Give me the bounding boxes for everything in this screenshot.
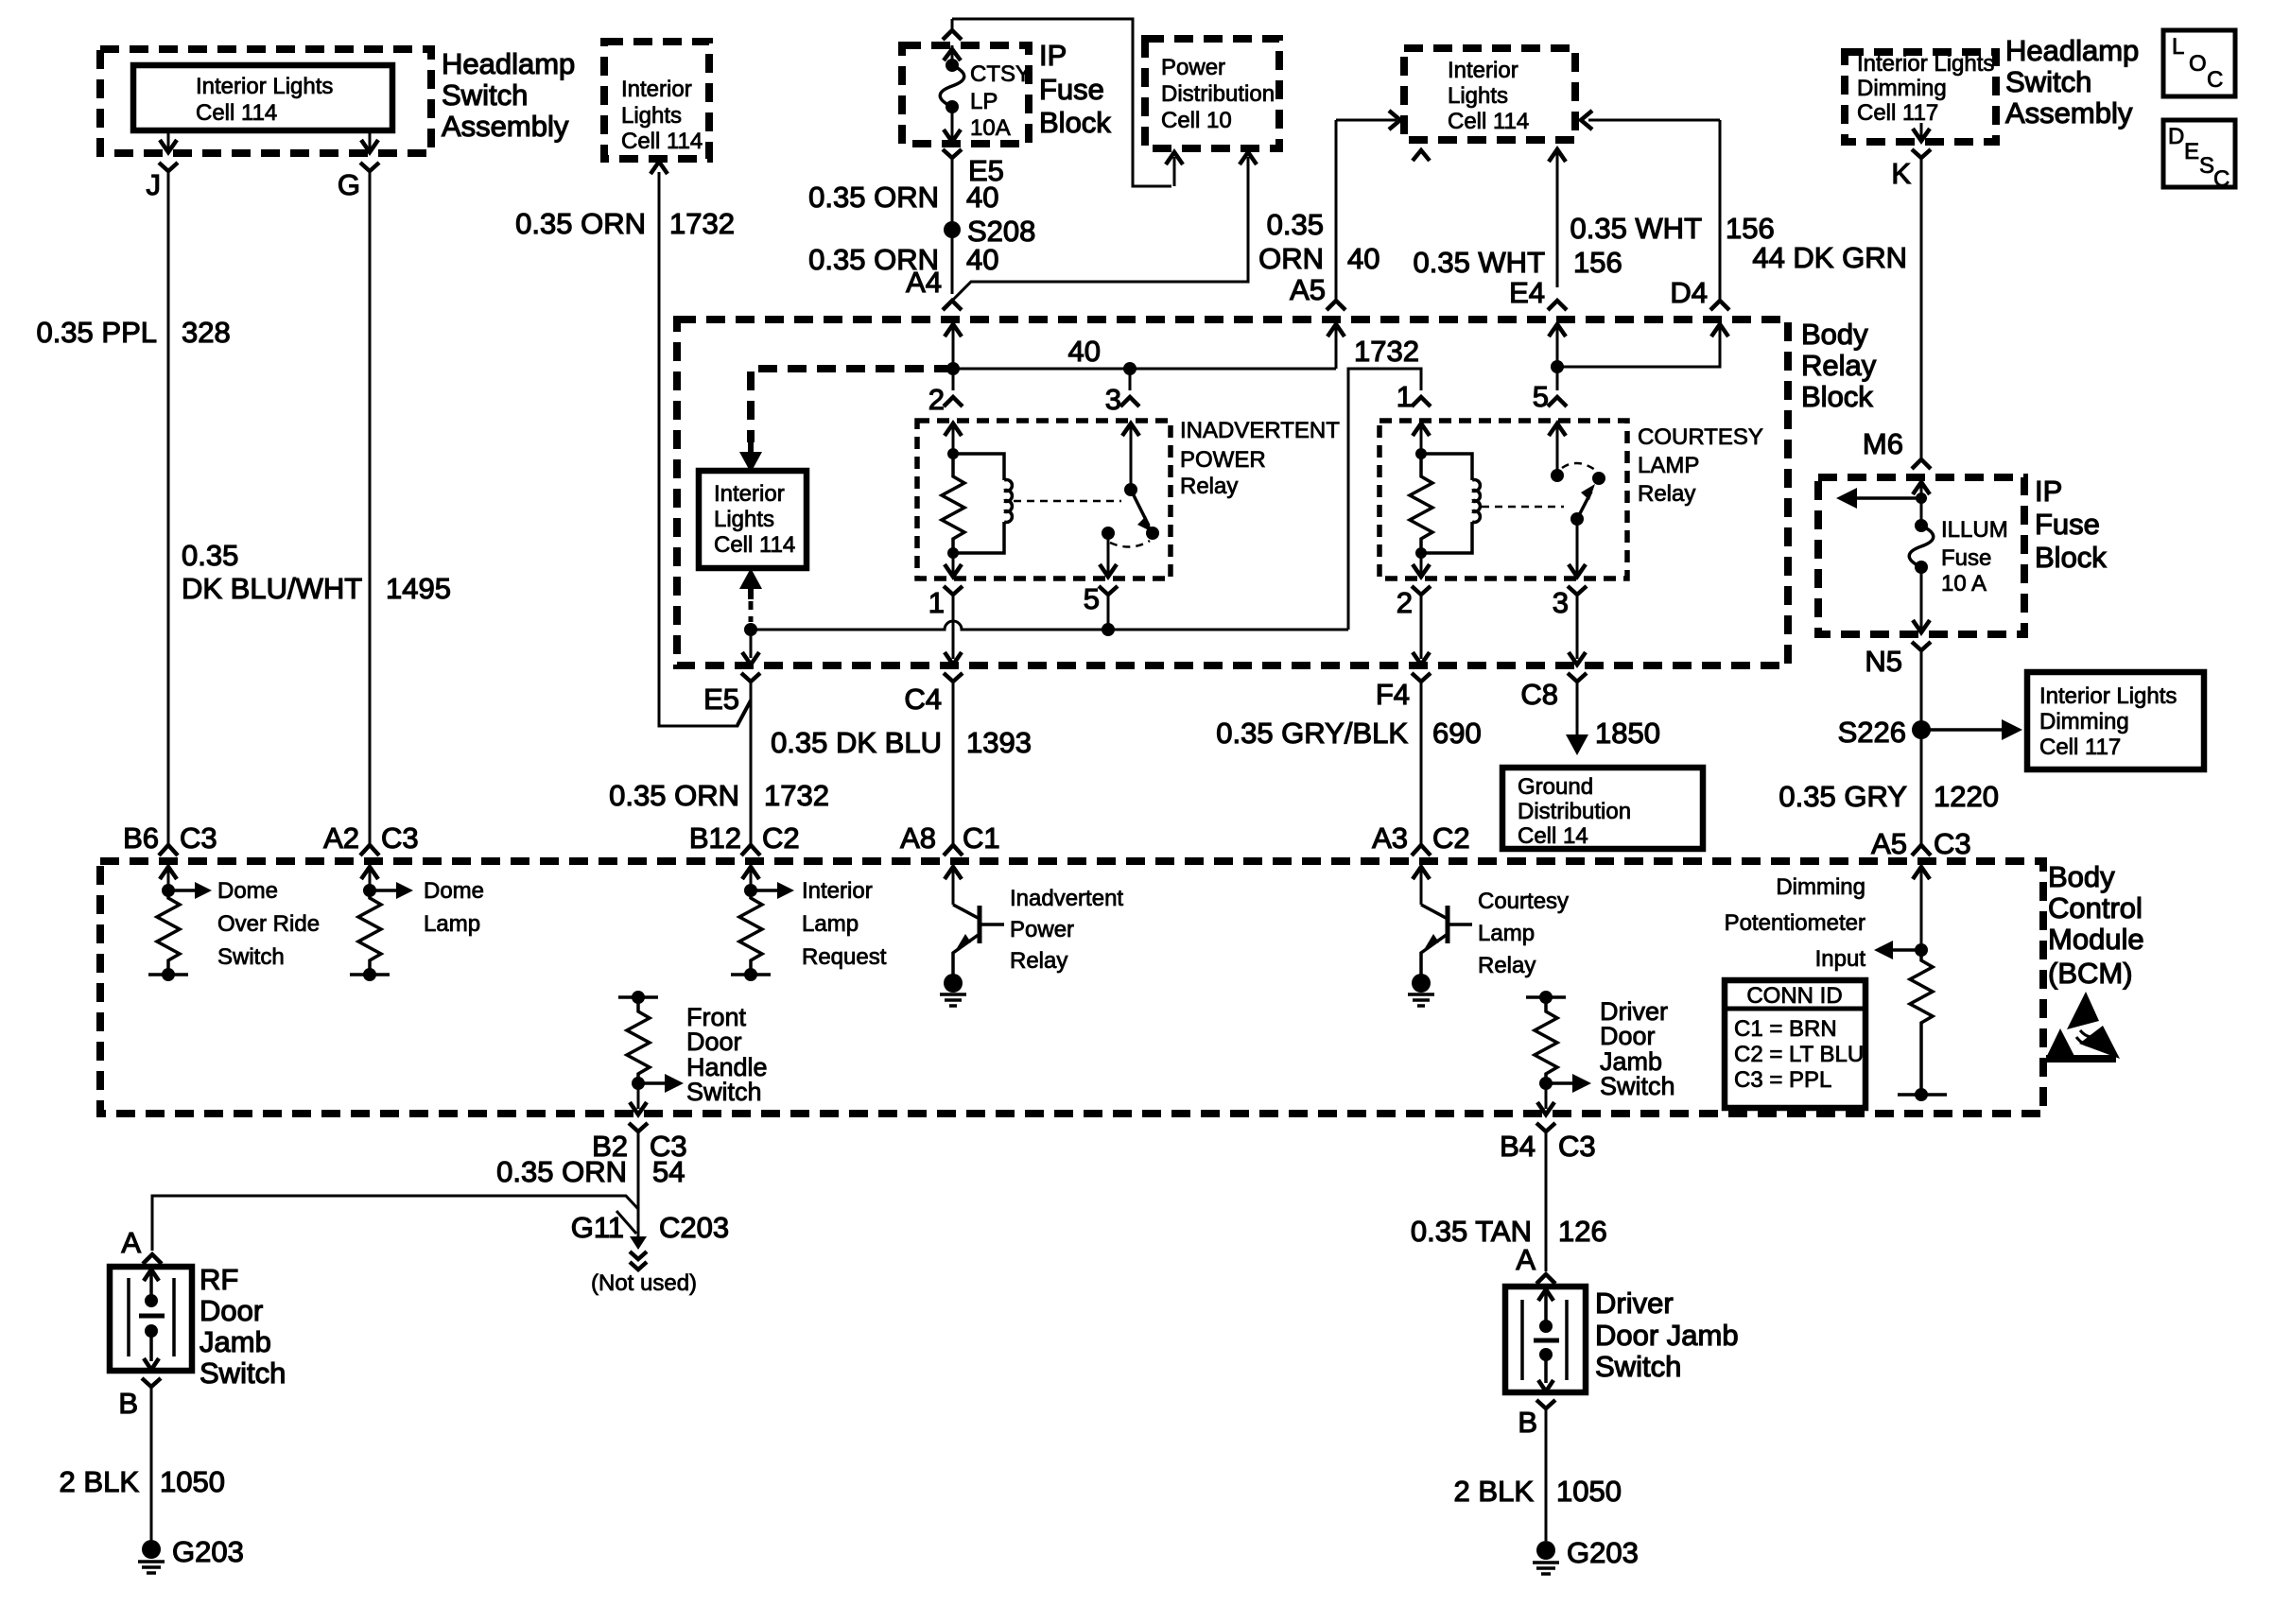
svg-text:J: J — [147, 168, 162, 201]
arrow up into power distribution (right) — [1240, 152, 1257, 164]
power distribution dashed box — [1145, 39, 1279, 148]
connector E5 — [703, 673, 760, 716]
ip fuse block label (top) — [1039, 39, 1111, 139]
svg-text:1: 1 — [1397, 380, 1413, 413]
svg-text:Distribution: Distribution — [1518, 799, 1631, 824]
connector N5 — [1865, 642, 1931, 678]
svg-text:2: 2 — [928, 383, 945, 416]
pin 5 connector (courtesy relay) — [1533, 380, 1567, 413]
svg-text:C: C — [2207, 67, 2223, 93]
svg-text:C1: C1 — [963, 821, 1000, 855]
svg-text:Switch: Switch — [2005, 65, 2091, 98]
svg-text:L: L — [2172, 34, 2184, 60]
svg-text:Door: Door — [1600, 1022, 1656, 1050]
arrow pin2 inside relay — [1413, 553, 1430, 577]
label (Not used) — [591, 1270, 697, 1296]
svg-text:Cell 117: Cell 117 — [2039, 734, 2121, 760]
svg-text:Switch: Switch — [442, 78, 528, 112]
svg-text:M6: M6 — [1863, 427, 1903, 460]
svg-text:Dimming: Dimming — [1776, 874, 1865, 900]
svg-text:RF: RF — [200, 1263, 238, 1296]
lower rail wire with hop — [751, 621, 1348, 630]
svg-text:1732: 1732 — [1354, 335, 1419, 368]
label 0.35 TAN — [1411, 1215, 1532, 1248]
svg-text:A5: A5 — [1871, 827, 1907, 860]
connector B4/C3 — [1500, 1123, 1596, 1163]
label 1050 (RF) — [160, 1465, 225, 1498]
wire 0.35 ORN 1732 from interior lights — [659, 172, 751, 726]
wire J stub from box — [167, 130, 170, 149]
interior lights cell 114 dashed box (top right) — [1404, 48, 1575, 140]
svg-text:2: 2 — [1397, 586, 1413, 619]
svg-text:Courtesy: Courtesy — [1478, 889, 1569, 914]
dome lamp label — [424, 878, 484, 937]
svg-text:3: 3 — [1105, 383, 1121, 416]
LOC box — [2163, 30, 2235, 96]
connector chevron above ip fuse block — [943, 19, 962, 40]
svg-text:Dome: Dome — [217, 878, 278, 904]
svg-text:Interior Lights: Interior Lights — [196, 74, 333, 99]
label 1393 — [966, 726, 1032, 759]
svg-text:Relay: Relay — [1801, 349, 1877, 382]
svg-text:ILLUM: ILLUM — [1941, 517, 2008, 543]
svg-text:N5: N5 — [1865, 645, 1902, 678]
connector D4 — [1670, 276, 1729, 310]
splice S226 — [1838, 716, 1931, 749]
dashed branch to interior lights cell 114 (mid) — [751, 369, 953, 442]
interior lights dimming cell 117 dashed box — [1845, 51, 1996, 142]
svg-text:Cell 114: Cell 114 — [621, 129, 703, 154]
svg-text:1495: 1495 — [386, 572, 451, 605]
svg-text:Dome: Dome — [424, 878, 484, 904]
connector B2/C3 — [592, 1123, 687, 1163]
svg-text:Relay: Relay — [1180, 474, 1238, 499]
inadvertent power relay transistor label — [1010, 886, 1123, 974]
junction dot pin5 rail — [1102, 623, 1115, 636]
wire G stub from box — [369, 130, 372, 149]
inadvertent power relay dashed box — [917, 421, 1171, 579]
svg-text:IP: IP — [1039, 39, 1067, 72]
label 1732 (riser) — [1354, 335, 1419, 368]
label 40 (lower) — [966, 243, 998, 276]
arrow A5 into BCM (dimming) — [1913, 867, 1930, 950]
relay switch (inadvertent) — [1102, 483, 1159, 547]
label 0.35 PPL — [36, 316, 157, 349]
ip fuse block dashed box (right) — [1818, 477, 2024, 634]
label 1850 — [1595, 717, 1660, 750]
connector E5 (fuse block) — [943, 149, 1004, 187]
svg-text:Door: Door — [200, 1294, 263, 1327]
svg-text:B12: B12 — [689, 821, 741, 855]
arrow down to fuse block edge (N5) — [1913, 567, 1930, 632]
wire 0.35 GRY 1220 — [1920, 650, 1923, 845]
svg-text:0.35 WHT: 0.35 WHT — [1413, 246, 1545, 279]
svg-text:2 BLK: 2 BLK — [1454, 1475, 1535, 1508]
label 1732 — [669, 207, 735, 240]
svg-text:Block: Block — [1039, 106, 1111, 139]
inadvertent power relay transistor — [953, 905, 1004, 975]
wire pin3 drop — [1129, 369, 1132, 390]
driver door jamb switch label — [1595, 1287, 1739, 1383]
svg-text:Dimming: Dimming — [2039, 709, 2129, 734]
svg-text:C4: C4 — [904, 682, 942, 716]
label 2 BLK (driver) — [1454, 1475, 1535, 1508]
svg-text:Block: Block — [1801, 380, 1873, 413]
connector chevron below interior lights cell 114 (top right) — [1413, 150, 1430, 161]
interior lights cell 114 box (mid) — [699, 471, 807, 568]
svg-text:0.35: 0.35 — [1267, 208, 1324, 241]
connector A5 (body relay block) — [1290, 273, 1345, 310]
arrow up into interior lights cell 114 box — [651, 162, 668, 174]
svg-text:C8: C8 — [1520, 678, 1558, 711]
svg-text:0.35 ORN: 0.35 ORN — [808, 181, 939, 214]
svg-text:690: 690 — [1432, 717, 1482, 750]
svg-text:1050: 1050 — [160, 1465, 225, 1498]
rail wire 40 inside body relay block — [946, 362, 1336, 375]
wire D4 to interior lights cell 114 — [1581, 111, 1720, 301]
svg-text:G203: G203 — [1567, 1536, 1639, 1569]
svg-text:S226: S226 — [1838, 716, 1906, 749]
svg-text:54: 54 — [652, 1155, 685, 1188]
CONN ID table — [1725, 980, 1865, 1108]
label 0.35 ORN (upper) — [808, 181, 939, 214]
svg-text:Ground: Ground — [1518, 774, 1593, 800]
arrow B6 into BCM — [160, 867, 177, 890]
dimming potentiometer input resistor — [1874, 941, 1947, 1101]
svg-text:Assembly: Assembly — [442, 110, 569, 143]
wire pin5 to rail — [1107, 595, 1110, 630]
fuse ILLUM 10 A — [1909, 517, 2007, 596]
RF door jamb switch internals — [129, 1270, 174, 1370]
wire 1850 to ground distribution — [1566, 682, 1588, 755]
arrow pin1 into relay (courtesy) — [1413, 423, 1430, 454]
svg-text:Relay: Relay — [1638, 481, 1695, 507]
svg-text:Block: Block — [2035, 541, 2107, 574]
arrow A3 into BCM — [1413, 867, 1430, 905]
svg-text:B: B — [118, 1387, 138, 1420]
svg-text:D: D — [2168, 124, 2184, 149]
junction node E5 rail — [744, 623, 757, 636]
connector G — [338, 163, 379, 201]
svg-text:5: 5 — [1084, 582, 1100, 615]
svg-text:Cell 117: Cell 117 — [1857, 100, 1938, 126]
svg-text:Cell 114: Cell 114 — [714, 532, 795, 558]
label 44 DK GRN — [1752, 241, 1907, 274]
body control module label — [2048, 860, 2144, 990]
svg-text:156: 156 — [1726, 212, 1775, 245]
inadvertent power relay label — [1180, 418, 1340, 499]
svg-text:Potentiometer: Potentiometer — [1725, 910, 1865, 936]
svg-text:Request: Request — [802, 944, 887, 970]
svg-text:1393: 1393 — [966, 726, 1032, 759]
svg-text:A: A — [121, 1226, 141, 1259]
label 328 — [182, 316, 231, 349]
dimming potentiometer input label — [1725, 874, 1866, 972]
arrow and chevrons G11 not used — [630, 1236, 647, 1270]
driver door jamb switch label (BCM) — [1600, 997, 1675, 1100]
svg-text:1850: 1850 — [1595, 717, 1660, 750]
svg-text:Lights: Lights — [621, 103, 682, 129]
svg-text:C203: C203 — [659, 1211, 729, 1244]
label 0.35 DK BLU/WHT — [182, 539, 362, 605]
label 0.35 ORN (54) — [496, 1155, 627, 1188]
wire 2 BLK 1050 (driver) — [1545, 1408, 1548, 1541]
interior lamp request label — [802, 878, 887, 970]
connector A8/C1 — [900, 821, 1000, 855]
wire B4 exit — [1537, 1083, 1554, 1114]
label 2 BLK (RF) — [60, 1465, 140, 1498]
feed arrow left inside fuse block — [1836, 488, 1927, 509]
relay coil (courtesy) — [1415, 454, 1480, 559]
ESD symbol — [2044, 992, 2120, 1063]
svg-text:126: 126 — [1558, 1215, 1607, 1248]
svg-text:Switch: Switch — [1600, 1072, 1675, 1100]
svg-text:40: 40 — [966, 243, 998, 276]
fuse CTSY LP 10A — [940, 59, 1031, 141]
svg-text:Door Jamb: Door Jamb — [1595, 1319, 1739, 1352]
arrow into G connector — [361, 140, 378, 152]
svg-text:CTSY: CTSY — [970, 61, 1031, 87]
driver door jamb switch box — [1505, 1287, 1586, 1392]
courtesy lamp relay label — [1638, 424, 1763, 507]
arrow pin5 inside relay (courtesy) — [1549, 423, 1566, 475]
svg-text:3: 3 — [1553, 586, 1569, 619]
relay coil (inadvertent) — [947, 454, 1012, 559]
connector E4 — [1509, 276, 1567, 310]
relay coil resistor (courtesy) — [1410, 448, 1432, 553]
svg-text:INADVERTENT: INADVERTENT — [1180, 418, 1340, 443]
svg-text:S: S — [2199, 153, 2214, 179]
driver door jamb switch resistor (BCM) — [1526, 991, 1591, 1093]
svg-text:0.35 GRY/BLK: 0.35 GRY/BLK — [1216, 717, 1408, 750]
wire pin5 inside relay — [1100, 533, 1117, 577]
ip fuse block label (right) — [2035, 475, 2107, 574]
connector B12/C2 — [689, 821, 800, 855]
pin 5 connector below (inadvertent) — [1084, 582, 1118, 615]
front door handle switch resistor — [618, 991, 684, 1093]
branch wire to RF door jamb switch — [152, 1196, 638, 1251]
arrow up into power distribution (left) — [1166, 152, 1183, 186]
interior lights cell 114 dashed box (second) — [604, 42, 709, 159]
RF door jamb switch box — [110, 1267, 192, 1371]
svg-text:(Not used): (Not used) — [591, 1270, 697, 1296]
connector M6 — [1863, 427, 1931, 469]
label 1732 (B12 wire) — [764, 779, 829, 812]
svg-text:Switch: Switch — [1595, 1350, 1681, 1383]
body relay block label — [1801, 318, 1877, 413]
svg-text:44 DK GRN: 44 DK GRN — [1752, 241, 1907, 274]
connector C4 — [904, 673, 963, 716]
svg-text:Interior: Interior — [621, 77, 692, 102]
top wire from CTSY fuse to power distribution — [952, 19, 1171, 186]
svg-text:Cell 14: Cell 14 — [1518, 823, 1588, 849]
arrow up inside fuse box — [944, 45, 961, 62]
svg-text:E: E — [2184, 139, 2199, 164]
body relay block dashed box — [677, 320, 1788, 665]
label 0.35 ORN (B12 wire) — [609, 779, 739, 812]
wire J (0.35 PPL 328) — [167, 171, 170, 845]
svg-text:10 A: 10 A — [1941, 571, 1987, 596]
ground (courtesy transistor) — [1408, 974, 1434, 1006]
svg-text:Driver: Driver — [1595, 1287, 1674, 1320]
arrow A8 into BCM — [945, 867, 962, 905]
svg-text:D4: D4 — [1670, 276, 1708, 309]
label 0.35 WHT (E4) — [1413, 246, 1545, 279]
pin 2 connector (inadvertent relay) — [928, 383, 963, 416]
connector A5/C3 (BCM) — [1871, 827, 1971, 860]
svg-text:0.35 GRY: 0.35 GRY — [1778, 780, 1907, 813]
svg-text:K: K — [1891, 157, 1911, 190]
arrow from S226 to interior lights dimming — [1921, 719, 2022, 740]
arrow pin1 inside relay — [945, 553, 962, 577]
interior lights cell 114 box (headlamp switch) — [133, 65, 392, 130]
svg-text:Fuse: Fuse — [1941, 545, 1991, 571]
svg-text:Headlamp: Headlamp — [2005, 34, 2139, 67]
svg-text:Switch: Switch — [200, 1356, 286, 1390]
pin 3 connector below (courtesy) — [1553, 586, 1587, 619]
svg-text:Inadvertent: Inadvertent — [1010, 886, 1123, 911]
svg-text:F4: F4 — [1376, 678, 1410, 711]
svg-text:CONN ID: CONN ID — [1746, 983, 1842, 1009]
svg-text:C: C — [2213, 166, 2230, 192]
arrow A2 into BCM — [361, 867, 378, 890]
svg-text:Fuse: Fuse — [2035, 508, 2100, 541]
label 0.35 WHT (D4) — [1570, 212, 1702, 245]
svg-text:B4: B4 — [1500, 1130, 1536, 1163]
svg-text:Lights: Lights — [714, 507, 774, 532]
svg-text:C3: C3 — [381, 821, 419, 855]
label 156 (E4) — [1573, 246, 1622, 279]
svg-text:Interior Lights: Interior Lights — [1857, 51, 1994, 77]
front door handle switch label — [686, 1003, 768, 1106]
svg-text:1: 1 — [928, 586, 945, 619]
arrow into J connector — [160, 140, 177, 152]
wire pin3 to C8 — [1569, 595, 1586, 665]
wire 1732 riser to courtesy relay pin 1 — [1348, 369, 1421, 630]
svg-text:Distribution: Distribution — [1161, 81, 1275, 107]
arrow up into ip fuse block (M6) — [1913, 482, 1930, 526]
svg-text:A2: A2 — [323, 821, 359, 855]
branch wire A4 to power distribution — [952, 157, 1248, 301]
dashed stub to junction — [749, 601, 754, 622]
dome lamp resistor — [350, 882, 413, 981]
svg-text:Assembly: Assembly — [2005, 96, 2133, 130]
RF door jamb switch label — [200, 1263, 286, 1390]
connector A2/C3 labels — [323, 821, 419, 855]
coil link dashed (courtesy) — [1482, 506, 1564, 509]
svg-text:Door: Door — [686, 1028, 742, 1056]
label 1050 (driver) — [1556, 1475, 1622, 1508]
svg-text:Interior: Interior — [1448, 58, 1518, 83]
svg-text:Lights: Lights — [1448, 83, 1508, 109]
svg-text:G11: G11 — [571, 1211, 624, 1244]
pin 1 connector below (inadvertent) — [928, 586, 963, 619]
dome over ride switch label — [217, 878, 320, 970]
label 0.35 GRY — [1778, 780, 1907, 813]
svg-text:Interior: Interior — [802, 878, 873, 904]
svg-text:Cell 10: Cell 10 — [1161, 108, 1232, 133]
svg-text:Interior: Interior — [714, 481, 785, 507]
svg-text:(BCM): (BCM) — [2048, 957, 2133, 990]
dome over ride switch resistor — [148, 882, 212, 981]
wire G (0.35 DK BLU/WHT 1495) — [369, 171, 372, 845]
connector A3/C2 — [1372, 821, 1470, 855]
label 156 (D4) — [1726, 212, 1775, 245]
pin 2 connector below (courtesy) — [1397, 586, 1431, 619]
svg-text:Cell 114: Cell 114 — [196, 100, 277, 126]
svg-text:1050: 1050 — [1556, 1475, 1622, 1508]
arrow B12 into BCM — [742, 867, 759, 890]
svg-text:Module: Module — [2048, 923, 2144, 956]
svg-text:A8: A8 — [900, 821, 936, 855]
courtesy lamp relay dashed box — [1379, 421, 1627, 579]
svg-text:Interior Lights: Interior Lights — [2039, 683, 2177, 709]
svg-text:1732: 1732 — [669, 207, 735, 240]
connector B6/C3 labels — [123, 821, 217, 855]
ground (inadvertent transistor) — [940, 974, 966, 1006]
svg-text:Cell 114: Cell 114 — [1448, 109, 1529, 134]
svg-text:Control: Control — [2048, 891, 2143, 924]
svg-text:IP: IP — [2035, 475, 2062, 508]
wire 0.35 ORN 54 — [637, 1132, 640, 1240]
svg-text:LP: LP — [970, 89, 998, 114]
svg-text:5: 5 — [1533, 380, 1549, 413]
interior lights dimming cell 117 box (solid) — [2027, 672, 2204, 769]
svg-text:156: 156 — [1573, 246, 1622, 279]
svg-text:0.35 DK BLU: 0.35 DK BLU — [771, 726, 942, 759]
connector B (RF door jamb switch) — [118, 1378, 161, 1420]
wire 44 DK GRN — [1920, 158, 1923, 459]
connector G11/C203 — [571, 1211, 729, 1244]
ground distribution cell 14 box — [1502, 768, 1703, 849]
connector J — [147, 163, 179, 201]
courtesy lamp relay transistor label — [1478, 889, 1569, 978]
wire E5 jog to 0.35 ORN wire — [737, 682, 751, 726]
svg-text:POWER: POWER — [1180, 447, 1266, 473]
svg-text:A5: A5 — [1290, 273, 1326, 306]
connector C8 — [1520, 673, 1587, 711]
label 0.35 ORN (1732 wire) — [515, 207, 646, 240]
headlamp switch assembly dashed box — [100, 49, 431, 153]
wire 0.35 TAN 126 — [1545, 1132, 1548, 1271]
svg-text:1220: 1220 — [1934, 780, 1999, 813]
arrow down into interior lights cell 114 (mid) — [739, 441, 762, 473]
ground G203 (driver) — [1533, 1536, 1639, 1574]
label 40 (upper) — [966, 181, 998, 214]
arrow down to fuse box edge — [944, 107, 961, 142]
svg-text:Lamp: Lamp — [802, 911, 859, 937]
arrow up from below into interior lights box — [739, 568, 762, 599]
ground G203 (RF) — [138, 1535, 244, 1573]
junction dot E4 rail — [1551, 360, 1564, 390]
svg-text:A3: A3 — [1372, 821, 1408, 855]
arrow pin3 inside relay — [1122, 423, 1139, 490]
DESC box — [2163, 120, 2235, 192]
label 0.35 GRY/BLK — [1216, 717, 1408, 750]
coil link dashed (inadvertent) — [1014, 500, 1121, 503]
svg-text:Power: Power — [1161, 55, 1225, 80]
label 1220 — [1934, 780, 1999, 813]
svg-text:B: B — [1518, 1406, 1537, 1439]
relay coil resistor (inadvertent) — [942, 448, 964, 553]
label 0.35 ORN (A5 wire) — [1258, 208, 1324, 275]
svg-text:Lamp: Lamp — [1478, 921, 1535, 946]
svg-text:Jamb: Jamb — [200, 1325, 271, 1358]
svg-text:LAMP: LAMP — [1638, 453, 1699, 478]
svg-text:C3: C3 — [180, 821, 217, 855]
body control module dashed box — [100, 861, 2043, 1114]
wire E5 exit from body relay block — [742, 630, 759, 665]
